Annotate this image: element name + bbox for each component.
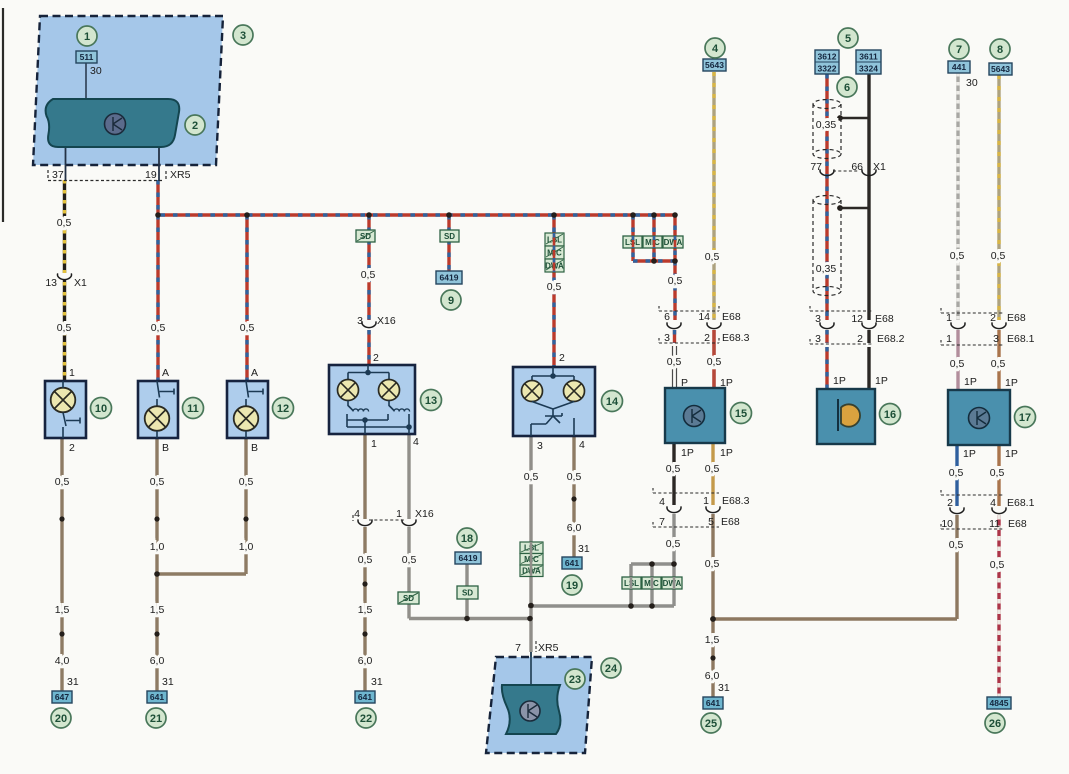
svg-text:1: 1 — [703, 495, 709, 507]
svg-text:0,5: 0,5 — [667, 356, 682, 368]
svg-text:2: 2 — [857, 333, 863, 345]
svg-text:4: 4 — [990, 497, 996, 509]
svg-text:0,5: 0,5 — [239, 476, 254, 488]
svg-text:641: 641 — [358, 692, 372, 702]
svg-text:0,5: 0,5 — [949, 467, 964, 479]
svg-text:1P: 1P — [875, 375, 888, 387]
svg-text:SD: SD — [462, 589, 473, 598]
svg-text:0,5: 0,5 — [150, 476, 165, 488]
svg-text:E68: E68 — [1007, 312, 1026, 324]
svg-text:E68: E68 — [721, 516, 740, 528]
svg-text:0,5: 0,5 — [57, 322, 72, 334]
svg-text:30: 30 — [90, 65, 102, 77]
svg-text:6: 6 — [844, 82, 850, 94]
svg-text:11: 11 — [989, 518, 1000, 530]
svg-text:0,5: 0,5 — [55, 476, 70, 488]
svg-text:13: 13 — [425, 395, 437, 407]
svg-text:2: 2 — [192, 120, 198, 132]
svg-text:E68: E68 — [722, 311, 741, 323]
svg-text:14: 14 — [698, 311, 710, 323]
svg-text:2: 2 — [373, 352, 379, 364]
svg-text:1,5: 1,5 — [705, 634, 720, 646]
svg-text:0,5: 0,5 — [240, 322, 255, 334]
svg-text:6419: 6419 — [440, 273, 459, 283]
svg-text:1P: 1P — [681, 447, 694, 459]
svg-text:4: 4 — [712, 43, 719, 55]
svg-text:3612: 3612 — [818, 52, 837, 62]
svg-text:9: 9 — [448, 295, 454, 307]
svg-text:14: 14 — [606, 396, 619, 408]
svg-text:0,5: 0,5 — [707, 356, 722, 368]
svg-text:31: 31 — [371, 676, 383, 688]
svg-text:3322: 3322 — [818, 64, 837, 74]
svg-text:0,5: 0,5 — [991, 250, 1006, 262]
svg-text:0,5: 0,5 — [567, 471, 582, 483]
svg-text:3: 3 — [664, 332, 670, 344]
svg-text:23: 23 — [569, 674, 581, 686]
svg-text:7: 7 — [956, 44, 962, 56]
svg-text:37: 37 — [52, 169, 64, 181]
svg-text:6: 6 — [664, 311, 670, 323]
svg-text:4: 4 — [354, 508, 360, 520]
svg-text:6,0: 6,0 — [705, 670, 720, 682]
svg-text:12: 12 — [851, 313, 863, 325]
svg-text:2: 2 — [990, 312, 996, 324]
svg-text:0,5: 0,5 — [950, 358, 965, 370]
svg-text:2: 2 — [947, 497, 953, 509]
svg-text:X16: X16 — [377, 315, 396, 327]
svg-text:12: 12 — [277, 403, 289, 415]
svg-text:5: 5 — [845, 33, 851, 45]
svg-text:4845: 4845 — [990, 698, 1009, 708]
svg-text:1P: 1P — [964, 376, 977, 388]
svg-text:4: 4 — [579, 439, 585, 451]
svg-text:1: 1 — [371, 438, 377, 450]
svg-text:2: 2 — [559, 352, 565, 364]
svg-text:A: A — [162, 367, 169, 379]
svg-text:1: 1 — [84, 31, 90, 43]
svg-text:4: 4 — [413, 436, 419, 448]
svg-text:1P: 1P — [720, 377, 733, 389]
svg-text:XR5: XR5 — [538, 642, 559, 654]
svg-text:A: A — [251, 367, 258, 379]
svg-text:1P: 1P — [1005, 377, 1018, 389]
svg-text:10: 10 — [941, 518, 953, 530]
svg-text:1,0: 1,0 — [239, 541, 254, 553]
svg-text:511: 511 — [80, 52, 94, 62]
svg-text:16: 16 — [884, 409, 896, 421]
svg-text:0,5: 0,5 — [402, 554, 417, 566]
svg-text:5643: 5643 — [705, 60, 724, 70]
svg-text:11: 11 — [187, 403, 199, 415]
svg-text:10: 10 — [95, 403, 107, 415]
svg-text:E68.3: E68.3 — [722, 495, 750, 507]
svg-text:E68.3: E68.3 — [722, 332, 750, 344]
svg-text:3: 3 — [240, 30, 246, 42]
svg-text:1,5: 1,5 — [55, 604, 70, 616]
svg-text:7: 7 — [659, 516, 665, 528]
svg-text:24: 24 — [605, 663, 618, 675]
svg-text:66: 66 — [851, 161, 863, 173]
svg-text:0,5: 0,5 — [666, 538, 681, 550]
svg-text:7: 7 — [515, 642, 521, 654]
svg-text:0,5: 0,5 — [705, 251, 720, 263]
svg-text:31: 31 — [718, 682, 730, 694]
svg-text:X16: X16 — [415, 508, 434, 520]
svg-text:4: 4 — [659, 496, 665, 508]
svg-text:1: 1 — [946, 333, 952, 345]
svg-text:DWA: DWA — [664, 238, 683, 247]
svg-text:P: P — [681, 377, 688, 389]
svg-text:1: 1 — [946, 312, 952, 324]
svg-text:5: 5 — [708, 516, 714, 528]
svg-text:31: 31 — [67, 676, 79, 688]
svg-text:E68.1: E68.1 — [1007, 333, 1035, 345]
svg-text:B: B — [251, 442, 258, 454]
svg-text:641: 641 — [706, 698, 720, 708]
svg-text:20: 20 — [55, 713, 67, 725]
svg-text:0,35: 0,35 — [816, 119, 837, 131]
svg-text:6,0: 6,0 — [150, 655, 165, 667]
svg-text:3: 3 — [815, 313, 821, 325]
svg-text:0,5: 0,5 — [991, 358, 1006, 370]
svg-text:0,5: 0,5 — [57, 217, 72, 229]
svg-text:3: 3 — [993, 333, 999, 345]
svg-text:MIC: MIC — [645, 238, 660, 247]
svg-text:25: 25 — [705, 718, 717, 730]
svg-text:22: 22 — [360, 713, 372, 725]
svg-text:1P: 1P — [1005, 448, 1018, 460]
svg-text:B: B — [162, 442, 169, 454]
svg-text:0,5: 0,5 — [950, 250, 965, 262]
svg-text:6,0: 6,0 — [358, 655, 373, 667]
svg-text:17: 17 — [1019, 412, 1031, 424]
svg-text:13: 13 — [45, 277, 57, 289]
svg-text:E68.2: E68.2 — [877, 333, 905, 345]
svg-text:1: 1 — [69, 367, 75, 379]
svg-text:0,5: 0,5 — [547, 281, 562, 293]
svg-text:0,5: 0,5 — [705, 463, 720, 475]
svg-text:E68: E68 — [875, 313, 894, 325]
svg-text:19: 19 — [566, 580, 578, 592]
svg-text:1,0: 1,0 — [150, 541, 165, 553]
svg-text:31: 31 — [578, 543, 590, 555]
svg-text:0,5: 0,5 — [524, 471, 539, 483]
svg-text:0,5: 0,5 — [666, 463, 681, 475]
svg-text:3: 3 — [537, 440, 543, 452]
svg-text:0,5: 0,5 — [151, 322, 166, 334]
svg-text:30: 30 — [966, 77, 978, 89]
svg-text:0,5: 0,5 — [668, 275, 683, 287]
svg-text:26: 26 — [989, 718, 1001, 730]
svg-text:1,5: 1,5 — [150, 604, 165, 616]
svg-text:8: 8 — [997, 44, 1003, 56]
svg-text:0,35: 0,35 — [816, 263, 837, 275]
svg-text:31: 31 — [162, 676, 174, 688]
svg-text:4,0: 4,0 — [55, 655, 70, 667]
svg-text:0,5: 0,5 — [705, 558, 720, 570]
svg-text:647: 647 — [55, 692, 69, 702]
svg-text:21: 21 — [150, 713, 162, 725]
svg-text:XR5: XR5 — [170, 169, 191, 181]
svg-text:X1: X1 — [74, 277, 87, 289]
svg-text:441: 441 — [952, 62, 966, 72]
svg-text:0,5: 0,5 — [990, 559, 1005, 571]
svg-text:SD: SD — [444, 232, 455, 241]
svg-text:77: 77 — [810, 161, 822, 173]
svg-text:1P: 1P — [833, 375, 846, 387]
svg-text:0,5: 0,5 — [949, 539, 964, 551]
svg-text:1,5: 1,5 — [358, 604, 373, 616]
svg-text:641: 641 — [565, 558, 579, 568]
svg-text:0,5: 0,5 — [361, 269, 376, 281]
svg-text:19: 19 — [145, 169, 157, 181]
svg-text:3324: 3324 — [859, 64, 878, 74]
svg-text:E68: E68 — [1008, 518, 1027, 530]
svg-text:18: 18 — [461, 533, 473, 545]
svg-text:E68.1: E68.1 — [1007, 497, 1035, 509]
svg-text:3: 3 — [357, 315, 363, 327]
svg-text:6,0: 6,0 — [567, 522, 582, 534]
svg-text:DWA: DWA — [663, 579, 682, 588]
svg-text:1P: 1P — [720, 447, 733, 459]
svg-text:2: 2 — [704, 332, 710, 344]
svg-text:3611: 3611 — [859, 52, 878, 62]
svg-text:6419: 6419 — [459, 553, 478, 563]
svg-text:641: 641 — [150, 692, 164, 702]
svg-text:15: 15 — [735, 408, 747, 420]
svg-text:1: 1 — [396, 508, 402, 520]
svg-text:X1: X1 — [873, 161, 886, 173]
svg-text:0,5: 0,5 — [358, 554, 373, 566]
svg-text:1P: 1P — [963, 448, 976, 460]
svg-text:0,5: 0,5 — [990, 467, 1005, 479]
svg-text:3: 3 — [815, 333, 821, 345]
svg-text:2: 2 — [69, 442, 75, 454]
svg-text:5643: 5643 — [991, 64, 1010, 74]
